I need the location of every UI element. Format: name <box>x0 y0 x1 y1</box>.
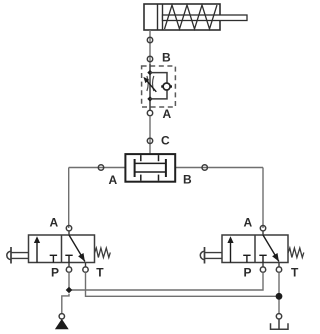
svg-text:C: C <box>161 133 170 147</box>
wire shuttle right <box>175 167 263 169</box>
svg-text:B: B <box>183 173 192 187</box>
valve V3 left position flow arrow <box>36 240 38 263</box>
wire to supply <box>62 294 69 314</box>
supply port circle <box>59 314 64 319</box>
wire to node C <box>149 116 151 154</box>
svg-text:T: T <box>291 265 299 279</box>
shuttle valve V2 body <box>125 154 175 182</box>
svg-text:A: A <box>109 173 118 187</box>
wire T right <box>278 272 280 296</box>
exhaust stem <box>278 319 280 329</box>
valve V4 port P circle <box>260 267 265 272</box>
valve V4 left position blocked T <box>243 254 250 256</box>
valve V4 port A circle <box>260 226 265 231</box>
wire P bus <box>69 272 263 290</box>
junction P left <box>66 287 73 294</box>
junction top <box>147 70 152 75</box>
junction bottom <box>147 96 152 101</box>
valve V3 right position blocked P <box>65 254 72 256</box>
valve V3 port P circle <box>66 267 71 272</box>
valve V4 port T circle <box>276 267 281 272</box>
valve V3 right position diagonal A to T <box>69 235 85 262</box>
valve V3 stub T <box>85 263 87 268</box>
svg-text:P: P <box>244 265 252 279</box>
wire T bus <box>86 272 280 313</box>
cylinder return spring <box>165 5 218 29</box>
compressed air supply <box>55 319 69 329</box>
cylinder C1 body <box>144 4 220 30</box>
flow control main line <box>149 64 151 111</box>
wire cylinder port down <box>149 30 151 64</box>
flow control valve V1 dashed enclosure <box>142 66 176 107</box>
exhaust symbol <box>271 323 289 329</box>
valve V4 stub A <box>262 231 264 235</box>
svg-text:B: B <box>162 51 171 65</box>
svg-text:T: T <box>96 265 104 279</box>
valve V3 left position blocked T <box>50 254 57 256</box>
check valve bypass wire <box>150 73 167 99</box>
valve V3 body <box>29 235 95 263</box>
svg-text:P: P <box>51 265 59 279</box>
check valve ball <box>163 83 170 90</box>
valve V4 stub T <box>278 263 280 268</box>
wire shuttle left <box>69 167 126 169</box>
valve V3 stub A <box>68 231 70 235</box>
valve V3 push button <box>10 247 12 264</box>
valve V3 port T circle <box>83 267 88 272</box>
valve V4 right position blocked P <box>259 254 266 256</box>
valve V4 left position flow arrow <box>230 240 232 263</box>
valve V4 stub P <box>262 263 264 268</box>
valve V4 right position diagonal A to T <box>263 235 279 262</box>
valve V3 return spring <box>95 248 111 258</box>
svg-text:A: A <box>163 107 172 121</box>
valve V3 port A circle <box>66 226 71 231</box>
throttle arcs <box>147 76 148 91</box>
exhaust port circle <box>276 314 281 319</box>
cylinder piston <box>158 4 163 30</box>
shuttle valve seats <box>141 155 159 181</box>
valve V4 push button <box>204 247 206 264</box>
cylinder rod <box>163 15 248 21</box>
wire left drop <box>68 168 70 229</box>
throttle adjust arrow <box>144 78 156 92</box>
shuttle port A circle <box>98 165 103 170</box>
shuttle port B circle <box>202 165 207 170</box>
flow control port A circle <box>147 110 152 115</box>
valve V4 return spring <box>288 248 304 258</box>
node C circle <box>147 138 152 143</box>
junction T right <box>276 293 283 300</box>
check valve seat <box>161 85 163 87</box>
flow control port B circle <box>147 56 152 61</box>
svg-text:A: A <box>244 216 253 230</box>
svg-text:A: A <box>50 216 59 230</box>
cylinder port circle <box>147 37 152 42</box>
shuttle valve piston <box>135 159 166 177</box>
wire right drop <box>262 168 264 229</box>
valve V4 body <box>222 235 288 263</box>
valve V3 stub P <box>68 263 70 268</box>
